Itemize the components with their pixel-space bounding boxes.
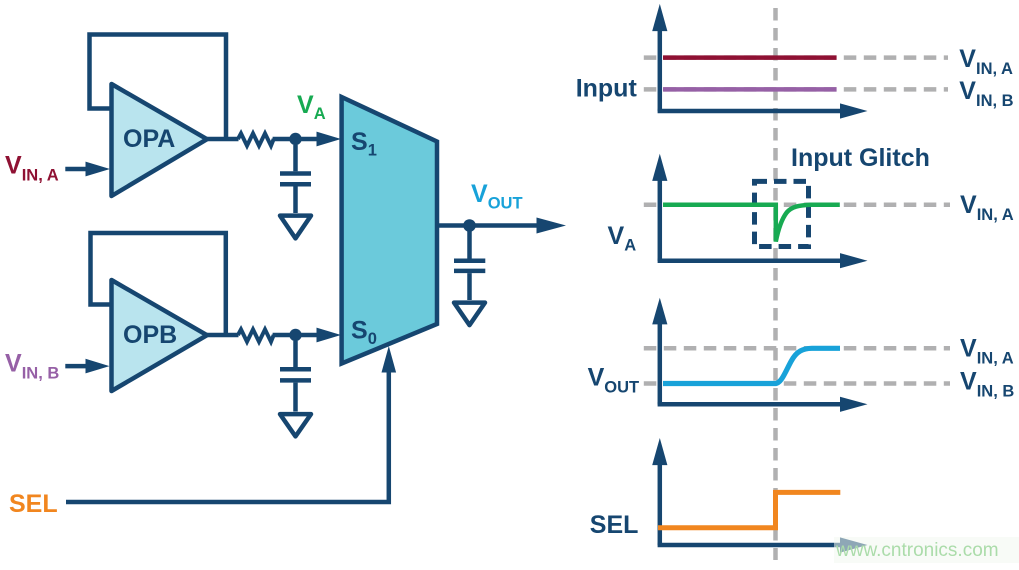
wire VOUT <box>437 223 538 228</box>
wire SEL <box>66 371 389 502</box>
svg-text:Input Glitch: Input Glitch <box>791 144 930 172</box>
ground G1 <box>280 216 311 239</box>
wire node A to mux <box>273 137 318 142</box>
dashed level line VINA graph2 <box>644 202 950 207</box>
node VOUT junction <box>463 219 476 232</box>
wire node B to mux <box>273 333 318 338</box>
resistor R2 <box>238 329 274 341</box>
multiplexer U1 <box>342 97 437 364</box>
wire OPB output <box>206 333 239 338</box>
resistor R1 <box>238 133 274 145</box>
dashed level line VINA graph1 <box>644 55 948 60</box>
graph1 trace VIN,A <box>663 55 837 60</box>
input arrow VIN,A <box>65 162 110 177</box>
arrow VOUT <box>537 218 567 234</box>
svg-text:SEL: SEL <box>590 511 639 539</box>
arrow into mux S1 <box>317 132 342 147</box>
node A junction <box>289 133 301 145</box>
graph3 x-axis <box>658 397 868 412</box>
capacitor C3 <box>454 231 485 300</box>
graph2 trace VA green <box>663 205 840 242</box>
op-amp OPA feedback wire <box>90 35 227 140</box>
graph2 x-axis <box>658 253 868 268</box>
dashed level line VINA graph3 <box>644 346 950 351</box>
graph2 y-axis <box>652 154 667 261</box>
svg-text:OPA: OPA <box>123 125 175 153</box>
ground G3 <box>454 303 485 326</box>
svg-text:Input: Input <box>576 75 638 103</box>
arrow into mux S0 <box>317 328 342 343</box>
op-amp OPB feedback wire <box>91 233 226 335</box>
graph4 y-axis <box>652 438 667 545</box>
svg-text:OPB: OPB <box>123 321 177 349</box>
dashed level line VINB graph1 <box>644 87 948 92</box>
graph1 x-axis <box>658 103 868 118</box>
watermark overlay <box>834 537 1019 563</box>
graph3 trace VOUT cyan <box>663 348 840 383</box>
graph2 glitch dashed box <box>755 181 809 246</box>
graph3 y-axis <box>652 298 667 405</box>
ground G2 <box>280 414 311 436</box>
graph1 y-axis <box>652 4 667 111</box>
svg-text:www.cntronics.com: www.cntronics.com <box>835 540 999 561</box>
vertical dashed timeline <box>773 8 778 560</box>
svg-text:SEL: SEL <box>9 490 58 518</box>
capacitor C1 <box>280 145 311 213</box>
op-amp OPB <box>112 280 208 391</box>
graph4 x-axis <box>658 537 868 552</box>
graph1 trace VIN,B <box>663 87 837 92</box>
input arrow VIN,B <box>65 359 109 374</box>
graph4 trace SEL orange <box>658 492 840 527</box>
node B junction <box>289 329 301 341</box>
dashed level line VINB graph3 <box>644 381 950 386</box>
arrow SEL into mux <box>382 346 397 373</box>
op-amp OPA <box>112 84 208 196</box>
capacitor C2 <box>280 341 311 412</box>
wire OPA output <box>206 137 239 142</box>
